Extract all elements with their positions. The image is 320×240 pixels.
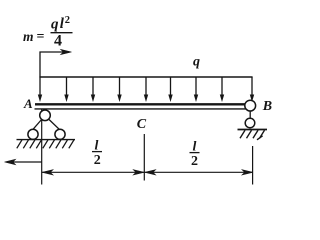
svg-text:A: A — [23, 96, 33, 111]
beam top line — [35, 103, 246, 105]
tick at C — [143, 134, 145, 181]
distributed load arrow 7 — [194, 77, 198, 102]
ground hatching at A — [17, 140, 74, 149]
ground hatching at B — [240, 130, 265, 140]
svg-text:=: = — [37, 30, 45, 45]
svg-text:C: C — [137, 117, 147, 132]
dimension line A to C — [42, 170, 144, 175]
svg-text:4: 4 — [54, 33, 62, 50]
distributed load arrow 3 — [91, 77, 95, 102]
dimension line C to B — [145, 170, 253, 175]
distributed load arrow 2 — [64, 77, 68, 102]
distributed load arrow 8 — [220, 77, 224, 102]
right roller at A — [55, 129, 65, 139]
roller at B — [245, 118, 255, 128]
tick at B end of dimension — [252, 146, 254, 185]
dimension label l/2 (left span) — [92, 138, 102, 168]
ground line at B — [238, 129, 268, 131]
svg-text:2: 2 — [65, 15, 70, 26]
ground line at A — [17, 139, 76, 141]
distributed load arrow 6 — [168, 77, 172, 102]
beam bottom line — [35, 108, 246, 110]
distributed load arrow 9 (right corner of load line) — [250, 77, 254, 102]
dimension label l/2 (right span) — [190, 139, 200, 169]
svg-text:m: m — [23, 29, 34, 44]
svg-text:q: q — [193, 55, 200, 70]
distributed load arrow 5 — [144, 77, 148, 102]
svg-text:B: B — [262, 99, 272, 114]
horizontal axis arrow pointing left below A — [5, 159, 43, 164]
svg-text:2: 2 — [191, 154, 198, 169]
moment arrow (bent arrow at left end) — [40, 49, 72, 77]
moment value label m = ql^2/4 — [23, 15, 73, 50]
hinge circle at B — [245, 100, 256, 111]
distributed load arrow 1 (shared with moment line at A) — [38, 77, 42, 102]
left roller at A — [28, 129, 38, 139]
load line (top of distributed load) — [39, 76, 252, 78]
distributed load arrow 4 — [117, 77, 121, 102]
support legs at A — [32, 119, 61, 131]
pin circle at A — [40, 110, 51, 121]
svg-text:2: 2 — [94, 153, 101, 168]
svg-text:q: q — [51, 17, 59, 33]
link between hinge and roller at B — [249, 111, 251, 119]
long vertical reference line below A — [41, 109, 43, 185]
